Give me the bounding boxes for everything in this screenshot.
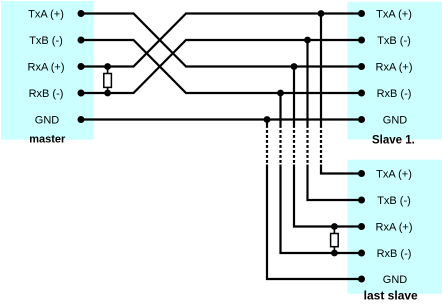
master pin label RxA (+) bbox=[28, 61, 65, 73]
last slave TxA pin node bbox=[358, 170, 365, 177]
Slave1 GND pin node bbox=[358, 116, 365, 123]
resistor R1 termination at master bbox=[104, 67, 112, 94]
last slave GND pin node bbox=[358, 276, 365, 283]
Slave1 RxA pin node bbox=[358, 63, 365, 70]
svg-text:RxB (-): RxB (-) bbox=[29, 88, 64, 100]
Slave1 TxB pin node bbox=[358, 37, 365, 44]
svg-text:RxA (+): RxA (+) bbox=[376, 221, 413, 233]
master block title bbox=[29, 134, 66, 146]
junction node R2 bottom on last slave RxB line bbox=[331, 250, 338, 257]
Slave 1 connector block bbox=[347, 2, 442, 140]
junction node TxB bus tap bbox=[304, 37, 311, 44]
master TxB pin node bbox=[78, 37, 85, 44]
last slave RxB pin node bbox=[358, 250, 365, 257]
master pin label RxB (-) bbox=[29, 88, 64, 100]
master pin label TxA (+) bbox=[28, 8, 64, 20]
wire drop TxB bus to last slave TxB(-) solid upper bbox=[306, 40, 308, 125]
svg-text:RxA (+): RxA (+) bbox=[28, 61, 65, 73]
svg-text:master: master bbox=[29, 134, 66, 146]
master TxA pin node bbox=[78, 10, 85, 17]
master GND pin node bbox=[78, 116, 85, 123]
junction node RxA bus tap bbox=[291, 63, 298, 70]
svg-text:RxB (-): RxB (-) bbox=[377, 88, 412, 100]
Slave1 RxB pin node bbox=[358, 90, 365, 97]
svg-text:TxA (+): TxA (+) bbox=[376, 8, 412, 20]
svg-text:TxB (-): TxB (-) bbox=[377, 195, 411, 207]
last slave TxB pin node bbox=[358, 197, 365, 204]
last slave pin label GND bbox=[383, 274, 408, 286]
Slave1 block title bbox=[372, 135, 415, 147]
svg-text:last slave: last slave bbox=[364, 289, 418, 303]
wire drop RxA bus to last slave RxA(+) solid upper bbox=[293, 67, 295, 126]
svg-text:GND: GND bbox=[383, 274, 408, 286]
master pin label TxB (-) bbox=[29, 35, 63, 47]
wire drop RxB bus lower elbow to last slave RxB(-) bbox=[281, 165, 362, 254]
last slave pin label RxB (-) bbox=[377, 248, 412, 260]
Slave1 pin label GND bbox=[383, 114, 408, 126]
svg-text:RxA (+): RxA (+) bbox=[376, 61, 413, 73]
resistor R2 termination at last slave bbox=[331, 227, 339, 254]
svg-text:TxA (+): TxA (+) bbox=[28, 8, 64, 20]
wire drop TxA bus to last slave TxA(+) solid upper bbox=[320, 14, 322, 126]
wire GND bus master to Slave1 bbox=[81, 118, 362, 120]
junction node R1 bottom on RxB line bbox=[104, 90, 111, 97]
wire drop GND bus to last slave GND solid upper bbox=[266, 120, 268, 126]
junction node GND bus tap bbox=[264, 116, 271, 123]
last slave pin label RxA (+) bbox=[376, 221, 413, 233]
wire drop RxB bus to last slave RxB(-) solid upper bbox=[279, 93, 281, 125]
wire drop TxB bus lower elbow to last slave TxB(-) bbox=[308, 165, 362, 201]
svg-text:Slave 1.: Slave 1. bbox=[372, 135, 415, 147]
last slave block title bbox=[364, 289, 418, 303]
wire master TxB(-) to Slave1 RxB(-) bbox=[81, 40, 362, 93]
Slave1 pin label RxA (+) bbox=[376, 61, 413, 73]
junction node RxB bus tap bbox=[277, 90, 284, 97]
last slave pin label TxB (-) bbox=[377, 195, 411, 207]
master RxA pin node bbox=[78, 63, 85, 70]
last slave RxA pin node bbox=[358, 223, 365, 230]
svg-text:RxB (-): RxB (-) bbox=[377, 248, 412, 260]
wire drop RxB bus dashed section bbox=[279, 125, 281, 165]
wire drop RxA bus dashed section bbox=[293, 125, 295, 165]
master connector block bbox=[1, 1, 94, 140]
wire drop GND bus dashed section bbox=[266, 125, 268, 165]
master RxB pin node bbox=[78, 90, 85, 97]
svg-text:TxB (-): TxB (-) bbox=[377, 35, 411, 47]
svg-text:TxB (-): TxB (-) bbox=[29, 35, 63, 47]
junction node R1 top on RxA line bbox=[104, 63, 111, 70]
wire drop TxB bus dashed section bbox=[306, 125, 308, 165]
wire master RxB(-) to Slave1 TxB(-) bbox=[81, 40, 362, 93]
wire drop TxA bus dashed section bbox=[320, 125, 322, 165]
junction node TxA bus tap bbox=[318, 10, 325, 17]
svg-text:TxA (+): TxA (+) bbox=[376, 168, 412, 180]
master pin label GND bbox=[35, 114, 60, 126]
last slave connector block bbox=[347, 160, 442, 294]
Slave1 TxA pin node bbox=[358, 10, 365, 17]
wire master TxA(+) to Slave1 RxA(+) bbox=[81, 14, 362, 67]
svg-text:GND: GND bbox=[383, 114, 408, 126]
last slave pin label TxA (+) bbox=[376, 168, 412, 180]
wire drop RxA bus lower elbow to last slave RxA(+) bbox=[294, 165, 362, 227]
Slave1 pin label RxB (-) bbox=[377, 88, 412, 100]
wire drop TxA bus lower elbow to last slave TxA(+) bbox=[321, 165, 362, 174]
Slave1 pin label TxB (-) bbox=[377, 35, 411, 47]
svg-text:GND: GND bbox=[35, 114, 60, 126]
wire drop GND bus lower elbow to last slave GND bbox=[267, 165, 362, 280]
Slave1 pin label TxA (+) bbox=[376, 8, 412, 20]
wire master RxA(+) to Slave1 TxA(+) bbox=[81, 14, 362, 67]
junction node R2 top on last slave RxA line bbox=[331, 223, 338, 230]
